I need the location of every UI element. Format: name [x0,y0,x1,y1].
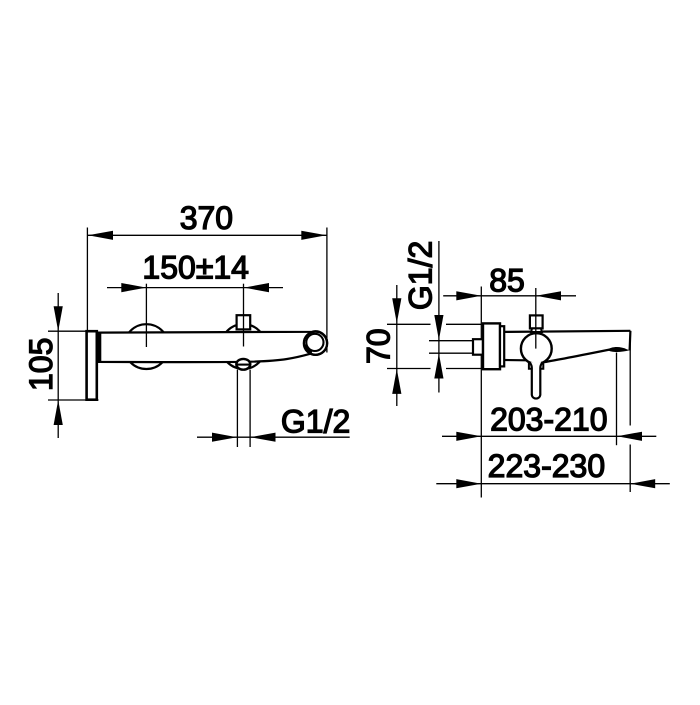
dim 223-230 extension right lower [629,445,631,493]
dim G1/2 (front) arrow right [251,433,276,442]
valve square on top (front) [237,315,251,329]
spout ring shading arc [305,345,312,353]
dim 370 extension right [326,228,328,353]
handle lever outline [530,362,543,398]
inlet nipple [473,339,483,355]
dim 85 arrow right [536,291,561,300]
spout aerator lens [608,347,630,352]
svg-text:105: 105 [23,338,59,391]
handle lever fill [530,362,543,398]
mounting circle right [221,324,266,369]
svg-text:370: 370 [180,200,233,236]
dim 150±14 arrow left [121,283,146,292]
dim 370 extension left [86,228,88,331]
dim 370 line [87,234,327,236]
dim G1/2 (side) arrow top [434,315,443,340]
inlet pipe top line [429,340,473,342]
dim 85 line [443,295,576,297]
dim G1/2 (side) arrow bottom [434,354,443,379]
svg-text:G1/2: G1/2 [403,241,439,310]
dim 105 line [57,293,59,438]
valve neck (side) [531,328,542,332]
tail ellipse below right mounting [236,359,250,370]
dim 223-230 arrow left [456,479,481,488]
dim 105 extension top [48,330,87,332]
flange lip [500,326,504,366]
dim 105 arrow bottom [54,400,63,425]
spout tip face [628,331,631,351]
mounting circle left [124,324,169,369]
dim 223-230 line [436,483,670,485]
centerline left mounting [145,284,147,347]
centerline right mounting [243,284,245,347]
dim 70 extension bottom a [387,368,431,370]
spout outer ring [304,332,327,355]
tail ellipse mid line [236,364,250,366]
tailpiece extension line right [249,370,251,447]
dim 203-210 arrow right [617,432,642,441]
dim G1/2 (front) line [197,436,350,438]
dim 85 arrow left [456,291,481,300]
svg-text:150±14: 150±14 [142,250,249,286]
faucet body (front) [98,331,328,362]
wall plate (front) [87,331,97,400]
wall plane line [480,287,482,498]
handle notch right [541,364,544,369]
dim 70 line [396,285,398,406]
body left bold cap [98,332,102,362]
inlet pipe bottom line [429,352,473,354]
handle notch left [529,364,532,369]
svg-text:85: 85 [489,262,525,298]
dim 203-210 extension right [616,353,618,446]
body (side) bottom edge [504,359,527,361]
dim 70 arrow top [392,298,401,323]
svg-text:203-210: 203-210 [490,401,607,437]
dim 105 arrow top [54,306,63,331]
svg-text:G1/2: G1/2 [281,404,350,440]
dim 70 extension top b [446,323,483,325]
svg-text:223-230: 223-230 [488,448,605,484]
dim 223-230 extension right upper [629,331,631,426]
valve square (side) [530,315,543,328]
dim G1/2 (side) line [438,241,440,393]
body (side) top edge [504,331,630,332]
dim 370 arrow left [88,231,113,240]
dim 85 extension (valve centerline) [535,288,537,349]
dim G1/2 (front) arrow left [212,433,237,442]
dim 105 extension bottom [48,399,99,401]
dim 150±14 line [107,287,283,289]
dim 203-210 line [442,435,656,437]
flange (side) [483,323,500,369]
spout underside [544,350,610,363]
dim 203-210 arrow left [456,432,481,441]
dim 150±14 arrow right [244,283,269,292]
tailpiece extension line left [236,370,238,447]
dim 370 arrow right [301,231,326,240]
dim 223-230 arrow right [630,479,655,488]
dim 70 extension top a [387,323,431,325]
cartridge circle [521,333,552,364]
svg-text:70: 70 [360,328,396,364]
dim 70 extension bottom b [446,368,483,370]
dim 70 arrow bottom [392,369,401,394]
spout inner ring [306,334,323,351]
